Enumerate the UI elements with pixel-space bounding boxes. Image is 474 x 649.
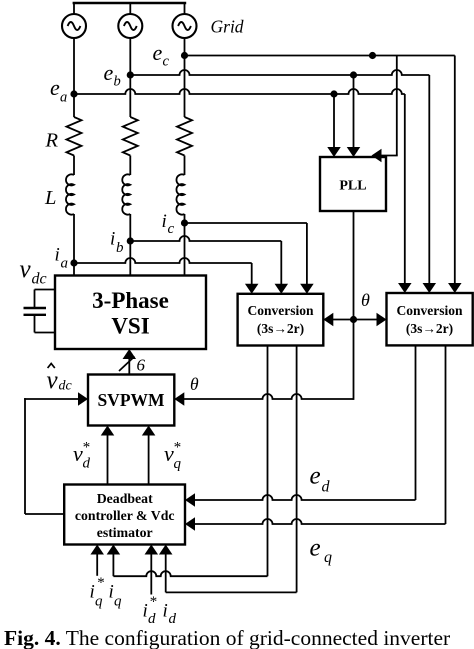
- wire e_b to PLL: [347, 75, 361, 157]
- label i_d*: [143, 594, 158, 627]
- svg-text:(3s→2r): (3s→2r): [257, 321, 304, 336]
- label i_b: [110, 229, 124, 257]
- svg-text:i: i: [163, 601, 168, 622]
- svg-text:dc: dc: [59, 379, 73, 394]
- svg-text:c: c: [163, 54, 170, 70]
- svg-text:controller & Vdc: controller & Vdc: [75, 508, 175, 523]
- inductor L3 phase c: [176, 174, 184, 214]
- svg-text:VSI: VSI: [111, 314, 149, 339]
- label v_dc: [20, 256, 47, 288]
- wire i_d* reference: [145, 545, 159, 595]
- svg-text:v: v: [20, 256, 32, 283]
- AC source Vb: [118, 14, 142, 38]
- arrow e_b into right conversion: [423, 283, 437, 293]
- label theta mid: [361, 290, 370, 310]
- svg-text:v: v: [47, 367, 59, 394]
- svg-text:SVPWM: SVPWM: [97, 390, 165, 410]
- block deadbeat controller U5: [64, 485, 185, 545]
- label i_q: [109, 582, 123, 610]
- label theta SVPWM: [190, 374, 199, 394]
- node theta junction: [350, 316, 357, 323]
- wire phase b upper: [129, 38, 131, 117]
- svg-text:R: R: [45, 130, 59, 152]
- node e_a: [70, 90, 77, 97]
- wire theta to left conversion: [323, 313, 353, 327]
- slash bus-width mark: [119, 357, 135, 372]
- wire phase c mid: [184, 156, 186, 176]
- svg-text:d: d: [169, 611, 177, 627]
- resistor R2 phase b: [123, 117, 138, 155]
- svg-text:q: q: [324, 549, 332, 566]
- label e_d: [310, 463, 331, 496]
- svg-text:θ: θ: [190, 374, 199, 394]
- svg-text:d: d: [83, 456, 91, 472]
- wire phase c upper: [184, 38, 186, 117]
- svg-text:a: a: [60, 90, 67, 106]
- wire e_a to PLL: [327, 94, 341, 157]
- wire PLL output theta: [353, 211, 355, 400]
- svg-text:i: i: [55, 245, 60, 266]
- svg-text:i: i: [110, 229, 115, 250]
- wire i_a to conversion: [74, 258, 258, 294]
- svg-text:q: q: [95, 594, 103, 610]
- node i_a: [70, 259, 77, 266]
- node i_c: [181, 219, 188, 226]
- label i_a: [55, 245, 69, 272]
- svg-text:q: q: [174, 456, 182, 472]
- svg-text:e: e: [153, 40, 163, 65]
- svg-text:estimator: estimator: [97, 525, 153, 540]
- node e_b: [127, 71, 134, 78]
- capacitor C1 plates: [24, 308, 47, 315]
- svg-text:*: *: [97, 575, 105, 591]
- block PLL U1: [320, 157, 386, 211]
- svg-text:6: 6: [137, 356, 146, 375]
- svg-text:*: *: [173, 440, 181, 456]
- wire v_q* to SVPWM: [142, 426, 156, 485]
- wire source c stub: [184, 3, 186, 14]
- svg-text:*: *: [82, 440, 90, 456]
- svg-text:PLL: PLL: [339, 179, 366, 194]
- top bus wire: [73, 2, 187, 5]
- svg-text:a: a: [61, 256, 69, 272]
- svg-text:L: L: [44, 187, 56, 209]
- node e_c dot: [369, 52, 376, 59]
- wire e_d feedback: [185, 345, 416, 506]
- block conversion currents U2: [238, 294, 324, 346]
- svg-text:i: i: [90, 582, 95, 603]
- node e_b PLL tap: [350, 71, 357, 78]
- svg-text:*: *: [149, 594, 157, 610]
- wire i_c to conversion: [185, 223, 314, 294]
- wire e_b bus: [130, 70, 429, 284]
- inductor L1 phase a: [66, 174, 74, 214]
- wire e_q feedback: [185, 345, 446, 530]
- svg-text:Conversion: Conversion: [396, 303, 462, 318]
- label e_q: [310, 535, 333, 567]
- wire theta to right conversion: [354, 313, 387, 327]
- arrow e_a into right conversion: [398, 283, 412, 293]
- wire e_c to PLL: [372, 56, 398, 163]
- node e_c: [181, 52, 188, 59]
- svg-text:Grid: Grid: [211, 17, 244, 37]
- figure caption: [4, 626, 450, 649]
- resistor R3 phase c: [177, 117, 192, 155]
- wire phase a lower: [73, 214, 75, 276]
- wire phase b mid: [129, 156, 131, 176]
- label i_c: [162, 211, 175, 237]
- svg-text:d: d: [148, 611, 156, 627]
- wire e_c bus: [185, 56, 455, 285]
- svg-text:θ: θ: [361, 290, 370, 310]
- wire source a stub: [73, 3, 75, 14]
- wire e_a bus: [74, 89, 405, 284]
- svg-text:e: e: [104, 60, 114, 85]
- svg-text:q: q: [114, 594, 122, 610]
- label i_d: [163, 601, 177, 628]
- svg-text:i: i: [162, 211, 167, 232]
- AC source Vc: [173, 14, 197, 38]
- svg-text:dc: dc: [32, 271, 47, 288]
- capacitor C1 wiring: [35, 290, 56, 333]
- inductor L2 phase b: [122, 174, 130, 214]
- wire phase b lower: [129, 214, 131, 276]
- svg-text:b: b: [114, 74, 121, 90]
- wire theta to SVPWM: [174, 392, 353, 406]
- Grid label: [211, 17, 244, 37]
- resistor R1 phase a: [67, 117, 82, 155]
- wire vdc-hat feedback: [24, 392, 88, 514]
- block 3-phase VSI: [55, 276, 206, 350]
- arrow e_c into right conversion: [448, 283, 462, 293]
- svg-text:i: i: [109, 582, 114, 603]
- svg-text:Conversion: Conversion: [247, 303, 313, 318]
- svg-text:3-Phase: 3-Phase: [92, 288, 169, 313]
- label i_q*: [90, 575, 105, 610]
- svg-text:e: e: [50, 75, 60, 100]
- wire i_q feedback: [107, 346, 268, 577]
- label e_c: [153, 40, 170, 70]
- wire i_d feedback: [159, 346, 297, 593]
- wire source b stub: [129, 3, 131, 14]
- node i_b: [127, 237, 134, 244]
- wire phase a upper: [73, 38, 75, 117]
- svg-text:Fig. 4. The configuration of g: Fig. 4. The configuration of grid-connec…: [4, 626, 450, 649]
- svg-text:(3s→2r): (3s→2r): [406, 321, 453, 336]
- svg-text:e: e: [310, 463, 321, 490]
- label e_b: [104, 60, 121, 90]
- svg-text:i: i: [143, 601, 148, 622]
- label R: [45, 130, 59, 152]
- wire v_d* to SVPWM: [101, 426, 115, 485]
- label v_q*: [164, 440, 182, 473]
- wire phase c lower: [184, 214, 186, 276]
- block conversion voltages U3: [387, 293, 473, 345]
- svg-text:c: c: [168, 221, 175, 237]
- label L: [44, 187, 56, 209]
- node e_a PLL tap: [330, 90, 337, 97]
- svg-text:Deadbeat: Deadbeat: [97, 491, 153, 506]
- AC source Va: [62, 14, 86, 38]
- svg-text:e: e: [310, 535, 321, 562]
- svg-text:d: d: [322, 479, 331, 496]
- label e_a: [50, 75, 67, 106]
- wire SVPWM to VSI gates: [123, 349, 137, 375]
- wire phase a mid: [73, 156, 75, 176]
- wire i_b to conversion: [130, 236, 288, 294]
- wire i_q* reference: [90, 545, 104, 576]
- svg-text:b: b: [116, 240, 124, 256]
- label v_d*: [73, 440, 91, 472]
- label vdc-hat: [47, 364, 73, 395]
- block SVPWM U4: [88, 375, 174, 426]
- label 6: [137, 356, 146, 375]
